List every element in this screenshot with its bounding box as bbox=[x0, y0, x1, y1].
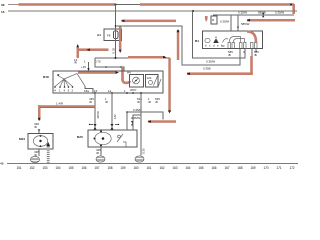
svg-text:0.35/W: 0.35/W bbox=[206, 60, 215, 64]
wire coil to ground bbox=[100, 147, 102, 156]
box B1 ignition module bbox=[195, 31, 263, 49]
label 0.35 vertical right drop bbox=[142, 148, 146, 154]
svg-text:585/B: 585/B bbox=[258, 11, 266, 15]
distributor rotor symbol bbox=[54, 74, 73, 88]
label 435/R under coil bbox=[96, 148, 101, 155]
highlight path fuse branch down-left bbox=[76, 44, 108, 58]
junction on bus 15 bbox=[192, 10, 194, 12]
svg-text:160: 160 bbox=[134, 166, 139, 170]
pin labels B18 bottom bbox=[84, 89, 126, 93]
wire coil to ground right bbox=[132, 92, 142, 155]
svg-text:15: 15 bbox=[1, 10, 5, 14]
svg-text:161: 161 bbox=[147, 166, 152, 170]
M24 motor symbol bbox=[33, 135, 47, 147]
svg-text:/B: /B bbox=[228, 53, 231, 57]
module internal wires bbox=[230, 37, 245, 43]
svg-text:A: A bbox=[243, 50, 245, 54]
box B20 ignition coil bbox=[77, 130, 137, 147]
sub box pickup bbox=[146, 75, 159, 88]
svg-text:2007: 2007 bbox=[130, 88, 137, 92]
label 0.35/R bbox=[133, 108, 142, 112]
highlight bar tach (arrow left) bbox=[148, 120, 177, 123]
module pin pair 3 bbox=[251, 43, 258, 49]
svg-text:/R: /R bbox=[89, 100, 92, 104]
wire B18 to coil terminal 1 bbox=[111, 93, 113, 130]
highlight vertical right of B18 (arrow down) bbox=[168, 58, 171, 114]
label 0.35/W with connector bbox=[131, 116, 140, 125]
module transistor curve bbox=[222, 39, 229, 47]
label 438/R above M24 bbox=[34, 122, 39, 129]
highlight on coil feed (arrow right) bbox=[128, 56, 167, 59]
svg-text:/R: /R bbox=[148, 100, 151, 104]
svg-text:172: 172 bbox=[290, 166, 295, 170]
module pickup symbol bbox=[213, 37, 219, 44]
inline connector on coil 15 wire bbox=[89, 124, 97, 130]
inline connector on coil 1 wire bbox=[110, 124, 119, 130]
svg-text:0.35/W: 0.35/W bbox=[275, 11, 284, 15]
svg-text:166: 166 bbox=[212, 166, 217, 170]
wire coil feed horizontal y58 bbox=[95, 57, 170, 112]
wire bus 30 highlight left segment bbox=[19, 3, 116, 6]
svg-text:H4: H4 bbox=[127, 70, 131, 74]
svg-text:F8: F8 bbox=[107, 33, 111, 37]
connector box H10 bbox=[211, 16, 217, 24]
sub box trigger H4 bbox=[127, 70, 144, 92]
wire bus 30 highlight right segment with corner down bbox=[140, 3, 295, 14]
svg-text:0.35/W: 0.35/W bbox=[220, 20, 229, 24]
page arrow striped bbox=[46, 142, 50, 162]
highlight run to M24 bbox=[38, 105, 95, 121]
highlight inside B18 top (arrow right) bbox=[78, 71, 119, 74]
svg-text:151: 151 bbox=[17, 166, 22, 170]
svg-text:1.4/R: 1.4/R bbox=[56, 101, 63, 105]
svg-text:1/R: 1/R bbox=[113, 115, 117, 120]
svg-text:154: 154 bbox=[56, 166, 61, 170]
label 585/W above module bbox=[241, 22, 250, 26]
labels under module bbox=[228, 50, 233, 57]
module pin letters bbox=[205, 44, 222, 48]
highlight vertical after fuse (arrow down) bbox=[119, 27, 122, 54]
fuse F8 symbol bbox=[113, 31, 118, 39]
module pin pair 2 bbox=[240, 43, 247, 49]
svg-text:0.35: 0.35 bbox=[142, 148, 146, 154]
label 435/R vertical bbox=[96, 111, 100, 119]
svg-text:+15: +15 bbox=[81, 65, 86, 69]
breaker switch blade bbox=[158, 79, 161, 87]
connector into M24 bbox=[38, 129, 41, 134]
svg-text:30: 30 bbox=[1, 3, 5, 7]
label 0.35/W on 15-feed left bbox=[238, 11, 247, 15]
svg-text:153: 153 bbox=[43, 166, 48, 170]
svg-text:B20: B20 bbox=[77, 135, 83, 139]
svg-text:A1: A1 bbox=[97, 33, 101, 37]
ground point coil bbox=[96, 156, 105, 162]
svg-text:171: 171 bbox=[277, 166, 282, 170]
rotor wire to pin bbox=[64, 74, 93, 94]
highlight bar ignition feed (arrow left) bbox=[121, 20, 176, 23]
label 0.35 vertical beside fuse wire bbox=[112, 47, 116, 53]
label 1a below branch bbox=[74, 58, 78, 65]
box M24 bbox=[19, 134, 53, 150]
node 15 label bbox=[1, 10, 5, 14]
svg-text:1a: 1a bbox=[108, 89, 112, 93]
svg-text:18a: 18a bbox=[84, 89, 89, 93]
svg-text:0.35/W: 0.35/W bbox=[131, 116, 140, 120]
label 0.75 at junction bbox=[95, 59, 101, 63]
svg-text:B1: B1 bbox=[195, 39, 199, 43]
highlight vertical mid (arrow up) bbox=[177, 29, 180, 60]
junction on bus 30 at fuse drop bbox=[115, 4, 117, 6]
svg-text:159: 159 bbox=[121, 166, 126, 170]
svg-text:/R: /R bbox=[74, 61, 77, 65]
svg-text:156: 156 bbox=[82, 166, 87, 170]
svg-text:170: 170 bbox=[264, 166, 269, 170]
svg-text:163: 163 bbox=[173, 166, 178, 170]
wire bus15 to module bbox=[193, 11, 246, 58]
distributor cylinder numbers bbox=[54, 88, 74, 92]
svg-text:12b: 12b bbox=[147, 76, 152, 80]
highlight long run left (arrow left) bbox=[187, 72, 253, 75]
label below M24 bbox=[34, 150, 39, 157]
scale ruler line bbox=[0, 162, 298, 166]
svg-text:0.35/R: 0.35/R bbox=[133, 108, 142, 112]
coil symbol bbox=[94, 130, 112, 146]
ground point G5 bbox=[31, 156, 40, 162]
wire fuse to module (via right drop) bbox=[115, 25, 240, 65]
wire B18 to coil terminal 15 bbox=[94, 93, 96, 130]
wire coil terminal 1 to tach bbox=[126, 111, 163, 130]
wire fuse drop from bus 30 bbox=[115, 5, 117, 59]
wire bus 30 black lead-in bbox=[8, 4, 20, 6]
svg-text:155: 155 bbox=[69, 166, 74, 170]
module pin pair 1 bbox=[228, 43, 235, 49]
wire into B18 plus15 bbox=[95, 58, 124, 71]
svg-text:/R: /R bbox=[137, 100, 140, 104]
svg-text:0.75: 0.75 bbox=[95, 59, 101, 63]
svg-text:585/W: 585/W bbox=[241, 22, 250, 26]
node 30 label bbox=[1, 3, 5, 7]
svg-text:B18: B18 bbox=[43, 75, 49, 79]
breaker points symbol bbox=[117, 134, 126, 147]
svg-text:152: 152 bbox=[30, 166, 35, 170]
connector arrow from other page (small salmon drop) bbox=[205, 16, 208, 22]
label 0.35/W below 15-feed bbox=[220, 20, 229, 24]
svg-text:162: 162 bbox=[160, 166, 165, 170]
wire M24 to ground bbox=[38, 149, 40, 156]
wire 15-feed horizontal under bus bbox=[213, 14, 294, 16]
svg-text:167: 167 bbox=[225, 166, 230, 170]
svg-text:0.35/W: 0.35/W bbox=[238, 11, 247, 15]
svg-text:169: 169 bbox=[251, 166, 256, 170]
svg-text:0.35B: 0.35B bbox=[203, 66, 211, 70]
highlight drop into B18 pin with loop bbox=[121, 67, 130, 83]
ground point right bbox=[135, 156, 144, 162]
svg-text:165: 165 bbox=[199, 166, 204, 170]
inline connector on 15-feed bbox=[258, 11, 266, 18]
module pin stubs below bbox=[252, 49, 256, 57]
wire under highlight to M24 bbox=[40, 107, 95, 109]
label 0.35/B under module bbox=[203, 66, 211, 70]
highlight bar to battery feed (arrow left) top right bbox=[247, 19, 296, 22]
box B18 bottom junctions bbox=[94, 92, 128, 94]
svg-text:4B: 4B bbox=[0, 162, 4, 166]
box B18 distributor bbox=[43, 71, 163, 93]
svg-text:/R: /R bbox=[96, 151, 99, 155]
ruler numbers bbox=[17, 166, 295, 170]
svg-text:168: 168 bbox=[238, 166, 243, 170]
svg-text:/R: /R bbox=[155, 100, 158, 104]
label 0.35/W under module bbox=[206, 60, 215, 64]
module lamp symbol bbox=[205, 38, 210, 42]
label 0.35/W on 15-feed right bbox=[275, 11, 284, 15]
svg-text:/B: /B bbox=[254, 53, 257, 57]
highlight module output down bbox=[250, 56, 253, 75]
wire bus 30 thin middle segment bbox=[115, 4, 141, 6]
wire B18 pin feed arrow bbox=[81, 59, 90, 71]
svg-text:157: 157 bbox=[95, 166, 100, 170]
labels under B18 drops bbox=[89, 97, 94, 104]
svg-text:/R: /R bbox=[105, 100, 108, 104]
label 1.4/R above run bbox=[56, 101, 63, 105]
svg-text:435/R: 435/R bbox=[96, 111, 100, 119]
svg-text:/R: /R bbox=[34, 125, 37, 129]
module highlight loop bbox=[247, 32, 256, 43]
svg-text:164: 164 bbox=[186, 166, 191, 170]
svg-text:0.35: 0.35 bbox=[112, 47, 116, 53]
svg-text:M24: M24 bbox=[19, 137, 25, 141]
svg-text:158: 158 bbox=[108, 166, 113, 170]
wires into module top bbox=[231, 15, 239, 31]
fuse holder box A1 bbox=[97, 29, 122, 41]
wire bus 15 bbox=[8, 10, 297, 12]
label 1/R vertical bbox=[113, 115, 117, 120]
